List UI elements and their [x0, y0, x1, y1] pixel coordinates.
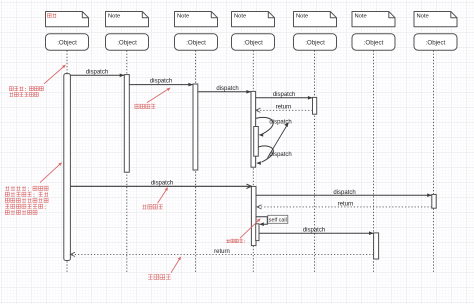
activation bar B4 (object4 upper)	[251, 91, 256, 167]
object O6 :Object	[352, 34, 395, 50]
svg-text:dispatch: dispatch	[269, 152, 291, 158]
object O1 :Object	[46, 34, 89, 50]
message m2 dispatch O2->O3	[129, 84, 192, 86]
activation bar B8 (object4 nested lower)	[256, 224, 259, 241]
svg-text::Object: :Object	[426, 39, 446, 46]
message r2 return O7->O4	[257, 206, 431, 208]
svg-text:Note: Note	[234, 14, 246, 20]
svg-text:Note: Note	[296, 14, 308, 20]
svg-text:dispatch: dispatch	[269, 119, 291, 125]
activation bar B2 (object2)	[124, 75, 129, 173]
message sc2 self dispatch on O4	[258, 146, 273, 162]
annotation async message text (yi-bu-xiao-xi)	[142, 205, 162, 209]
object O5 :Object	[294, 34, 337, 50]
message r1 return O5->O4	[256, 109, 312, 111]
svg-text:self call: self call	[269, 217, 287, 223]
activation bar B10 (object7)	[432, 194, 436, 208]
note N5	[294, 12, 337, 27]
lifeline L5	[314, 51, 316, 274]
object O3 :Object	[175, 34, 218, 50]
svg-text:Note: Note	[177, 14, 189, 20]
svg-text:dispatch: dispatch	[216, 86, 238, 92]
note N1	[46, 12, 89, 27]
svg-text:dispatch: dispatch	[273, 92, 295, 98]
object O4 :Object	[232, 34, 275, 50]
svg-text:Note: Note	[108, 14, 120, 20]
svg-text::Object: :Object	[186, 39, 206, 46]
lifeline L4	[252, 51, 254, 274]
svg-text::Object: :Object	[117, 39, 137, 46]
annotation lifeline text (sheng-ming-xian)	[9, 87, 43, 91]
message m3 dispatch O3->O4	[198, 91, 251, 93]
svg-text:dispatch: dispatch	[333, 190, 355, 196]
message m5 async dispatch O1->O4	[70, 185, 251, 187]
svg-text::Object: :Object	[364, 39, 384, 46]
activation bar B6 (object5)	[313, 97, 317, 114]
svg-text:Note: Note	[355, 14, 367, 20]
annotation arrow to r3	[171, 258, 180, 273]
svg-text:return: return	[276, 104, 292, 110]
message sc3 self call on O4	[256, 217, 267, 224]
svg-text:dispatch: dispatch	[303, 227, 325, 233]
message m7 dispatch O4->O6	[259, 232, 373, 234]
activation bar B1 (object1)	[64, 74, 71, 261]
annotation arrow to activation bar B1	[40, 163, 61, 182]
note N7	[414, 12, 457, 27]
message sc1 self dispatch on O4	[256, 117, 273, 133]
lifeline L1	[66, 51, 68, 274]
object O2 :Object	[106, 34, 149, 50]
activation bar B5 (object4 nested upper)	[254, 127, 259, 157]
pointer arrow to sc1 label	[268, 125, 288, 158]
svg-text:dispatch: dispatch	[150, 79, 172, 85]
svg-text::Object: :Object	[57, 39, 77, 46]
svg-text::Object: :Object	[243, 39, 263, 46]
message m6 dispatch O4->O7	[256, 194, 431, 196]
message m1 dispatch O1->O2	[70, 74, 124, 76]
message r3 return O6->O1	[71, 253, 374, 255]
annotation arrow to lifeline	[44, 66, 65, 84]
lifeline L7	[433, 51, 435, 274]
self call label box	[268, 215, 288, 223]
note N4	[232, 12, 275, 27]
activation bar B3 (object3)	[193, 84, 198, 170]
annotation self message text (fan-shen-xiao-xi)	[226, 239, 245, 243]
annotation return message text (fan-hui-xiao-xi)	[148, 275, 171, 280]
svg-text::Object: :Object	[305, 39, 325, 46]
svg-text:dispatch: dispatch	[151, 181, 173, 187]
lifeline L2	[126, 51, 128, 274]
note N2	[106, 12, 149, 27]
note N6	[352, 12, 395, 27]
annotation focus-of-control text (kong-zhi-jiao-dian) 5 lines	[5, 186, 48, 190]
svg-text:dispatch: dispatch	[86, 69, 108, 75]
annotation sync message text (tong-bu-xiao-xi)	[135, 104, 155, 108]
note N3	[175, 12, 218, 27]
annotation arrow to m2	[147, 88, 170, 102]
message m4 dispatch O4->O5	[256, 97, 313, 99]
activation bar B7 (object4 lower)	[251, 186, 256, 245]
svg-text:return: return	[338, 201, 354, 207]
annotation arrow to sc3	[240, 219, 260, 238]
svg-text:Note: Note	[417, 14, 429, 20]
lifeline L6	[373, 51, 375, 274]
lifeline L3	[195, 51, 197, 274]
object O7 :Object	[414, 34, 457, 50]
activation bar B9 (object6)	[374, 233, 379, 259]
svg-text:return: return	[214, 249, 230, 255]
annotation arrow to m5	[158, 188, 168, 203]
